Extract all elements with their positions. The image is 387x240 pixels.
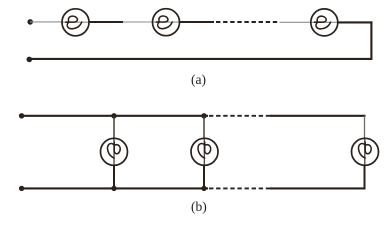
wire: branch3 upper vertical (gray): [364, 116, 366, 139]
wire: top rail solid left (b): [22, 115, 208, 117]
wire: top rail solid right (b): [270, 115, 366, 117]
wire through lamp L4 (dark): [113, 138, 115, 166]
wire through lamp L2 (gray): [153, 21, 180, 23]
wire through lamp L6 (dark): [364, 138, 366, 166]
wire through lamp L5 (dark): [203, 138, 205, 166]
lamp L6: [352, 138, 379, 165]
wire: top rail dashed (b): [209, 115, 270, 117]
wire: dashes to lamp L3 (gray): [280, 21, 312, 23]
wire: branch2 lower vertical: [203, 165, 205, 188]
lamp L3: [311, 9, 338, 36]
label (a): [191, 72, 206, 88]
label (b): [191, 199, 207, 215]
wire: branch2 upper vertical: [203, 116, 205, 139]
wire: right vertical (a): [370, 21, 372, 59]
terminal dot bottom-left (b): [19, 186, 24, 191]
junction dot bottom branch2: [201, 186, 206, 191]
junction dot top branch2: [201, 113, 206, 118]
wire: branch1 lower vertical: [113, 165, 115, 188]
lamp L5: [191, 138, 218, 165]
wire: bottom rail dashed (b): [209, 187, 270, 189]
wire through lamp L3 (gray): [311, 21, 338, 23]
wire: lamp L1 to midpoint (black): [89, 21, 123, 23]
wire: bottom return (a): [29, 58, 372, 60]
wire: bottom rail solid left (b): [22, 187, 208, 189]
wire through lamp L1 (gray): [62, 21, 89, 23]
terminal dot top-left (b): [19, 113, 24, 118]
terminal dot bottom-left (a): [27, 57, 33, 63]
lamp L2: [153, 9, 180, 36]
wire: branch3 lower vertical: [364, 165, 366, 189]
terminal dot top-left (a): [27, 19, 33, 25]
wire: midpoint to lamp L2 (gray): [123, 21, 153, 23]
wire: top-left dot to lamp L1 (gray): [30, 21, 63, 23]
junction dot bottom branch1: [111, 186, 116, 191]
junction dot top branch1: [111, 113, 116, 118]
wire: lamp L3 to right corner (black): [338, 21, 373, 23]
lamp L4: [101, 138, 128, 165]
wire: dashed continuation (a): [216, 21, 278, 23]
lamp L1: [62, 9, 89, 36]
wire: bottom rail solid right (b): [270, 187, 366, 189]
wire: branch1 upper vertical: [113, 116, 115, 139]
wire: lamp L2 to dashes (black): [180, 21, 215, 23]
